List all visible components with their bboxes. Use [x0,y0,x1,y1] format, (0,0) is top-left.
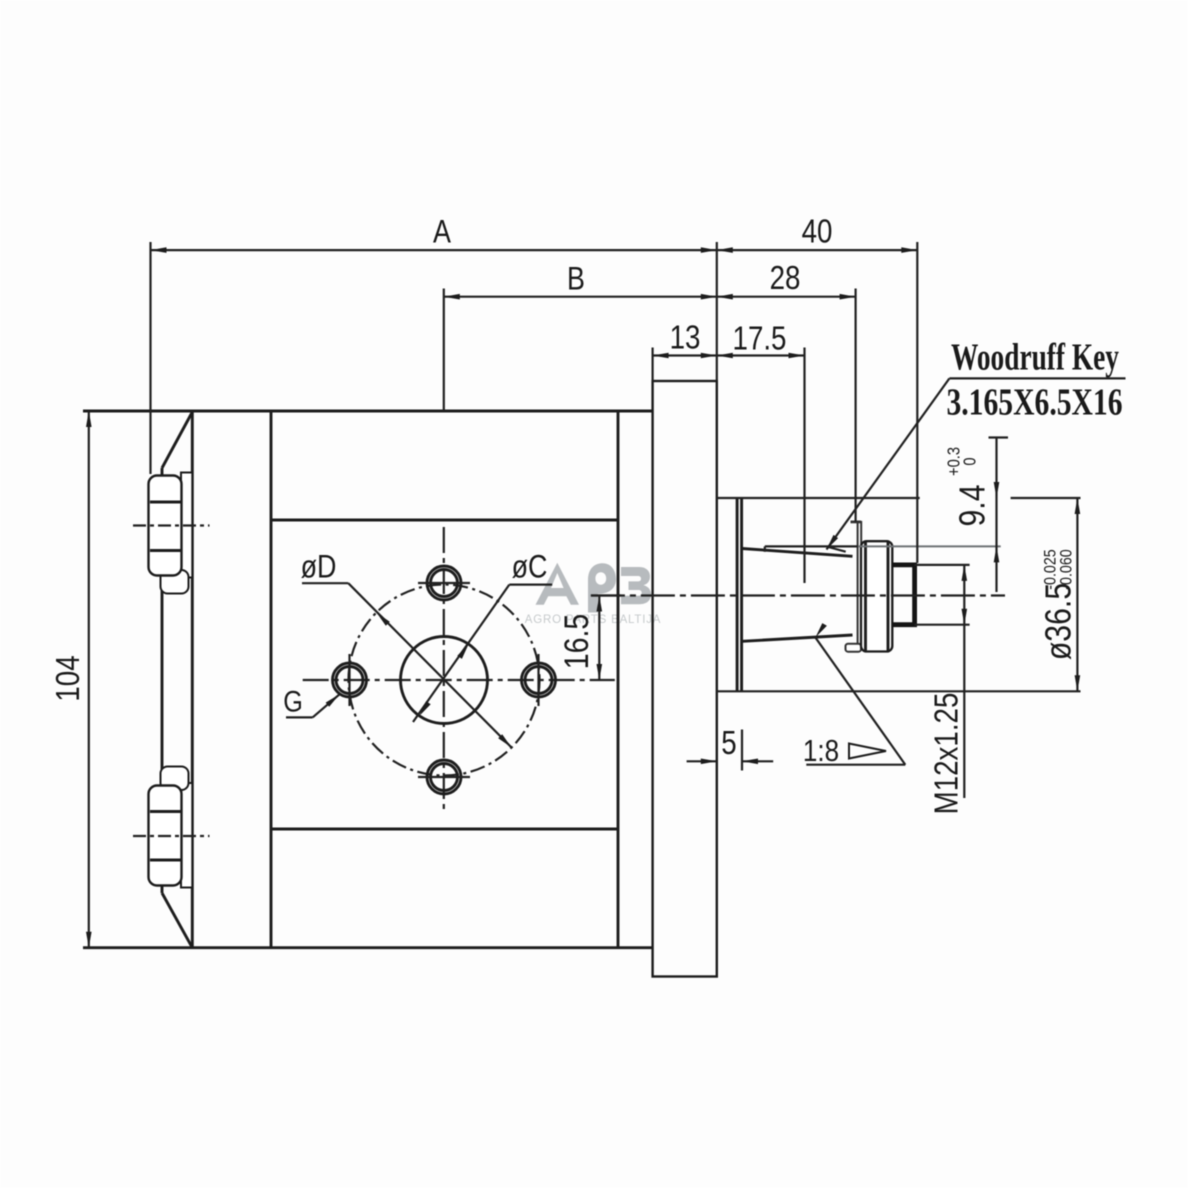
dimension 16.5 reference tick [591,594,621,596]
front view lower inner line [271,828,618,831]
shaft spigot ring line 2 [740,498,743,691]
svg-text:øD: øD [301,549,337,585]
flange strip left edge [161,468,164,893]
dimension 9.4 [995,438,997,593]
front view horizontal centerline [303,679,615,681]
dimension 104 [88,411,90,948]
top stud hex nut [149,476,182,576]
tapered shaft bottom edge [742,635,853,641]
extension line 40 right [916,242,918,563]
oC label and underline [509,583,552,585]
top stud centerline [133,524,210,526]
front view top edge line [83,410,653,413]
shaft washer [858,522,862,647]
bolt circle (dash-dot) [349,585,540,776]
watermark APB logo letter A [536,563,580,605]
oD label and underline [302,582,348,584]
svg-text:A: A [433,214,451,250]
dimension 40 [717,249,918,251]
extension line B left [443,289,445,412]
top bolt hole [418,566,470,600]
center spigot circle [401,637,488,724]
svg-text:104: 104 [50,655,87,701]
svg-text:G: G [283,684,303,718]
woodruff key top line [765,546,858,551]
front view upper inner line [271,519,618,522]
left bolt hole [333,654,367,706]
top nut hex face line lower [150,549,182,552]
svg-text:28: 28 [770,260,801,297]
top nut hex face line upper [150,501,182,504]
top stud boss tab [161,570,189,594]
dimension 5 [687,760,717,762]
front view bottom edge line [83,946,653,949]
svg-text:ø36.5: ø36.5 [1039,583,1079,660]
svg-text:B: B [567,261,585,297]
extension line 17.5 right [803,348,805,584]
bottom stud centerline [133,835,210,837]
svg-text:9.4: 9.4 [953,484,993,526]
dimension o36.5 [717,497,920,499]
flange strip bottom chamfer [162,893,192,948]
svg-text:40: 40 [802,213,833,250]
oC diameter line across spigot circle [413,585,509,722]
shaft centerline [591,594,1005,596]
threaded stub M12 [892,565,914,625]
svg-text:1:8: 1:8 [803,734,839,769]
svg-text:M12x1.25: M12x1.25 [928,693,965,815]
flange strip right edge [191,411,194,948]
key top extension line (9.4 reference) [858,545,1001,547]
right bolt hole [522,654,556,706]
dimension B [444,296,717,298]
front view left edge [270,411,273,948]
dimension 13 [653,354,717,356]
front view vertical centerline [443,527,445,810]
oD diameter line across bolt circle [348,583,511,747]
svg-text:-0.060: -0.060 [1057,549,1075,590]
front view right edge [617,411,620,948]
dimension A [151,249,717,251]
dimension 28 [717,296,856,298]
bottom bolt hole [418,760,470,794]
extension line 13 left [651,348,653,382]
svg-text:0: 0 [960,457,979,465]
top stud washer [181,473,192,578]
tapered shaft top edge [742,549,853,557]
bottom stud washer [181,783,192,888]
dimension 17.5 [717,354,805,356]
M12x1.25 dimension [915,564,970,566]
bottom nut hex face line upper [150,810,182,813]
svg-text:3.165X6.5X16: 3.165X6.5X16 [946,382,1122,423]
rear flange plate [653,381,717,977]
extension line 28 right [854,289,856,523]
watermark APB logo letter P [588,563,616,612]
svg-text:16.5: 16.5 [558,614,596,670]
bottom stud hex nut [149,786,182,886]
bottom stud boss tab [161,767,189,791]
shaft hex nut [861,541,892,651]
svg-text:Woodruff Key: Woodruff Key [951,336,1119,378]
watermark APB logo letter B [621,567,651,604]
svg-text:17.5: 17.5 [733,320,787,357]
extension line A left [149,242,151,474]
flange strip top chamfer [162,412,192,468]
svg-text:13: 13 [670,319,701,356]
shaft spigot ring line 1 [736,498,739,691]
bottom nut hex face line lower [150,859,182,862]
G label leader [286,716,313,718]
svg-text:5: 5 [721,725,736,762]
dimension 16.5 [598,596,600,681]
svg-text:øC: øC [512,549,548,585]
extension line plate face [716,242,718,381]
woodruff key right end slant [828,547,845,552]
